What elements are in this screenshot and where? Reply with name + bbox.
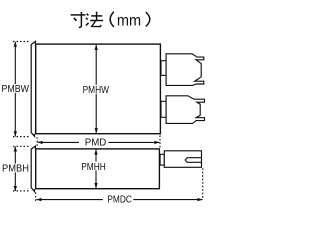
- svg-text:PMD: PMD: [85, 137, 107, 148]
- svg-text:PMBH: PMBH: [2, 164, 29, 175]
- svg-text:PMBW: PMBW: [1, 84, 29, 95]
- svg-text:mm: mm: [117, 13, 141, 30]
- svg-text:PMHH: PMHH: [81, 162, 106, 173]
- svg-text:PMDC: PMDC: [107, 194, 132, 205]
- svg-text:PMHW: PMHW: [83, 85, 110, 96]
